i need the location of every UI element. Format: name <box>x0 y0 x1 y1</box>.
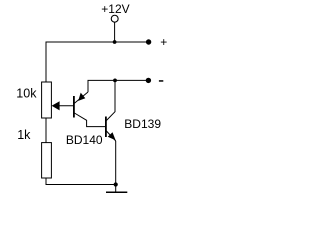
svg-text:BD139: BD139 <box>124 117 161 131</box>
potentiometer R1 wiper arrow <box>52 101 60 110</box>
svg-text:BD140: BD140 <box>66 133 103 147</box>
wire 1k to bottom rail <box>46 178 116 185</box>
transistor Q2 BD139 base bar <box>105 117 107 138</box>
junction node top rail / +12V <box>113 40 117 44</box>
transistor Q1 BD140 collector <box>74 113 105 127</box>
transistor Q1 BD140 base bar <box>73 96 75 118</box>
wire top rail (+ rail) <box>46 42 149 82</box>
svg-text:+12V: +12V <box>101 2 129 16</box>
junction node minus rail / Q2 collector <box>113 79 117 83</box>
wire Q2 emitter to ground junction <box>115 141 117 185</box>
potentiometer R1 10k body <box>42 82 52 118</box>
transistor Q1 BD140 emitter (arrow into base, PNP) <box>74 92 88 103</box>
junction node bottom rail / ground <box>114 182 118 186</box>
label - <box>159 80 163 82</box>
terminal - (filled dot) <box>146 78 151 83</box>
transistor Q2 BD139 collector <box>106 80 115 120</box>
wire pot to 1k resistor <box>45 118 47 143</box>
svg-text:10k: 10k <box>16 86 37 100</box>
wire minus rail <box>88 80 148 92</box>
transistor Q2 BD139 emitter (arrow out, NPN) <box>106 131 115 141</box>
wire pot wiper to Q1 base <box>55 105 73 107</box>
terminal + (filled dot) <box>146 39 151 44</box>
svg-text:1k: 1k <box>17 128 31 142</box>
terminal +12V (open circle) <box>111 15 118 22</box>
ground <box>115 185 117 193</box>
wire +12V drop <box>114 22 116 42</box>
resistor R2 1k body <box>42 143 52 178</box>
svg-text:+: + <box>160 35 167 49</box>
